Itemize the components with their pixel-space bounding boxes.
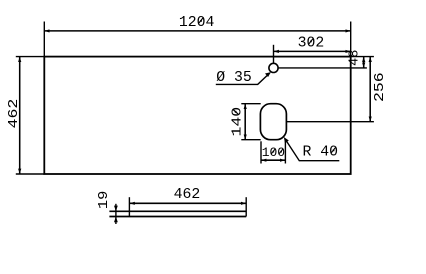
- svg-text:462: 462: [174, 187, 201, 203]
- extension line right edge extended up: [350, 22, 352, 57]
- extension line sink bottom extended left: [241, 139, 260, 141]
- dimension 1204 text: [179, 15, 215, 31]
- extension line sink right extended down: [284, 141, 286, 164]
- extension line sink top extended left: [241, 103, 260, 105]
- dimension 19 arrows: [114, 206, 118, 223]
- svg-text:302: 302: [298, 36, 325, 52]
- dimension 100 line: [261, 159, 285, 161]
- extension line circle center extended right: [278, 67, 367, 69]
- label R40 leader: [284, 137, 340, 161]
- side panel strip left edge extended up: [128, 197, 130, 216]
- svg-text:256: 256: [371, 72, 387, 102]
- side panel strip 462x19 top line: [109, 210, 246, 212]
- dimension 19 text: [97, 191, 112, 209]
- dimension 256 text: [371, 72, 387, 102]
- dimension 140 line: [244, 104, 246, 140]
- side panel strip bottom line: [109, 216, 246, 218]
- dimension 100 text: [262, 145, 285, 160]
- svg-text:48: 48: [347, 50, 362, 66]
- dimension 48 text: [347, 50, 362, 66]
- svg-text:1204: 1204: [179, 15, 215, 31]
- label D35 leader: [216, 72, 271, 84]
- dimension 302 line: [274, 50, 351, 52]
- faucet hole circle D35: [269, 63, 278, 72]
- dimension 302 text: [298, 36, 325, 52]
- extension line sink left extended down: [260, 141, 262, 163]
- dimension 256 line: [369, 57, 371, 122]
- extension line sink center extended right: [287, 121, 374, 123]
- extension line bottom edge extended left: [16, 173, 45, 175]
- extension line top edge extended right: [351, 56, 374, 58]
- label R40 text: [303, 144, 339, 160]
- extension line circle center vertical: [273, 45, 275, 63]
- dimension 462 left line: [19, 57, 21, 174]
- svg-text:Ø 35: Ø 35: [216, 70, 252, 86]
- svg-text:100: 100: [262, 145, 285, 160]
- svg-text:140: 140: [229, 107, 245, 137]
- dimension 48 line: [363, 57, 365, 68]
- svg-text:19: 19: [97, 191, 112, 209]
- worktop outline 1204x462: [44, 57, 350, 174]
- svg-text:R 40: R 40: [303, 144, 339, 160]
- dimension 19 line: [115, 204, 117, 224]
- extension line left edge extended up: [43, 22, 45, 57]
- side panel strip right edge extended up: [245, 197, 247, 216]
- extension line top edge extended left: [16, 56, 45, 58]
- dimension 1204 line: [44, 30, 350, 32]
- sink cutout rounded rectangle 100x140 R40: [260, 104, 286, 140]
- dimension 462 left text: [5, 99, 21, 129]
- svg-text:462: 462: [5, 99, 21, 129]
- dimension 462 bottom line: [129, 202, 246, 204]
- dimension 140 text: [229, 107, 245, 137]
